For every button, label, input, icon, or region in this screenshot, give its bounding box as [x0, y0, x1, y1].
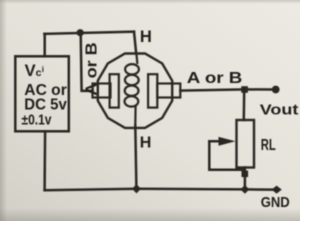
wire: top rail down to sensor top H terminal [134, 32, 136, 54]
wire: Vc box top lead [43, 34, 46, 56]
svg-text:H: H [140, 28, 152, 46]
wire: wiper tied to RL bottom loop [209, 141, 244, 169]
node: ground rail junction under RL (diamond) [241, 185, 250, 194]
wire: sensor bottom H lead down to ground rail [135, 126, 136, 189]
node: output junction (square) [241, 86, 248, 93]
voltage source box Vc [15, 56, 69, 131]
wiper arrow [219, 137, 236, 146]
wire: bottom ground rail [45, 189, 273, 190]
svg-text:A or B: A or B [187, 70, 243, 87]
terminal: GND arrow [272, 186, 282, 194]
svg-text:±0.1v: ±0.1v [22, 112, 52, 128]
svg-text:RL: RL [261, 137, 276, 154]
Hall sensor body (circle) [98, 54, 172, 128]
wire: output node to Vout terminal [245, 88, 272, 91]
svg-text:Vci: Vci [25, 62, 44, 80]
wire: sensor right terminal to output node [180, 89, 244, 90]
left electrode plate [110, 74, 119, 107]
wire: output node down to RL top [243, 89, 246, 120]
heater coil inside sensor [124, 54, 138, 126]
wire: RL wiper lead [209, 140, 224, 143]
wire: left branch down from node to A-or-B terminal [81, 33, 93, 91]
left terminal stub [93, 84, 111, 98]
node: ground rail junction under sensor (diamond) [132, 184, 141, 193]
svg-text:DC 5v: DC 5v [24, 96, 67, 113]
right terminal stub [157, 84, 180, 98]
right electrode plate [148, 74, 157, 107]
svg-text:Vout: Vout [260, 103, 299, 119]
node: RL bottom junction (square) [242, 171, 249, 178]
svg-text:H: H [140, 135, 152, 152]
wire: RL bottom to ground rail [244, 168, 247, 190]
terminal: Vout (dot) [272, 86, 280, 94]
wire: top supply rail [44, 32, 134, 34]
svg-text:GND: GND [261, 194, 290, 211]
node: supply rail junction [77, 29, 84, 36]
wire: Vc box bottom lead down to ground rail [43, 131, 46, 190]
resistor RL (potentiometer body) [237, 120, 255, 168]
